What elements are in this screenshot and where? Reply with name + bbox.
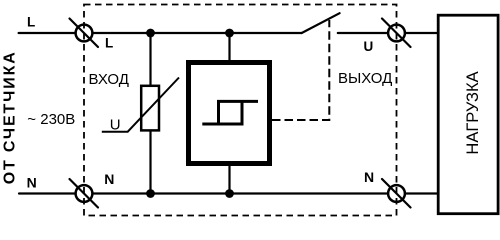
svg-text:ОТ СЧЕТЧИКА: ОТ СЧЕТЧИКА (1, 50, 18, 184)
svg-text:L: L (105, 36, 113, 51)
svg-text:~ 230В: ~ 230В (27, 111, 75, 128)
svg-text:N: N (364, 169, 374, 185)
svg-text:N: N (27, 175, 37, 191)
svg-text:L: L (27, 14, 35, 29)
svg-text:ВХОД: ВХОД (89, 71, 129, 88)
svg-text:НАГРУЗКА: НАГРУЗКА (464, 71, 482, 154)
svg-text:N: N (104, 171, 114, 187)
svg-text:U: U (110, 117, 121, 134)
svg-text:U: U (364, 39, 374, 54)
svg-text:ВЫХОД: ВЫХОД (338, 70, 392, 87)
